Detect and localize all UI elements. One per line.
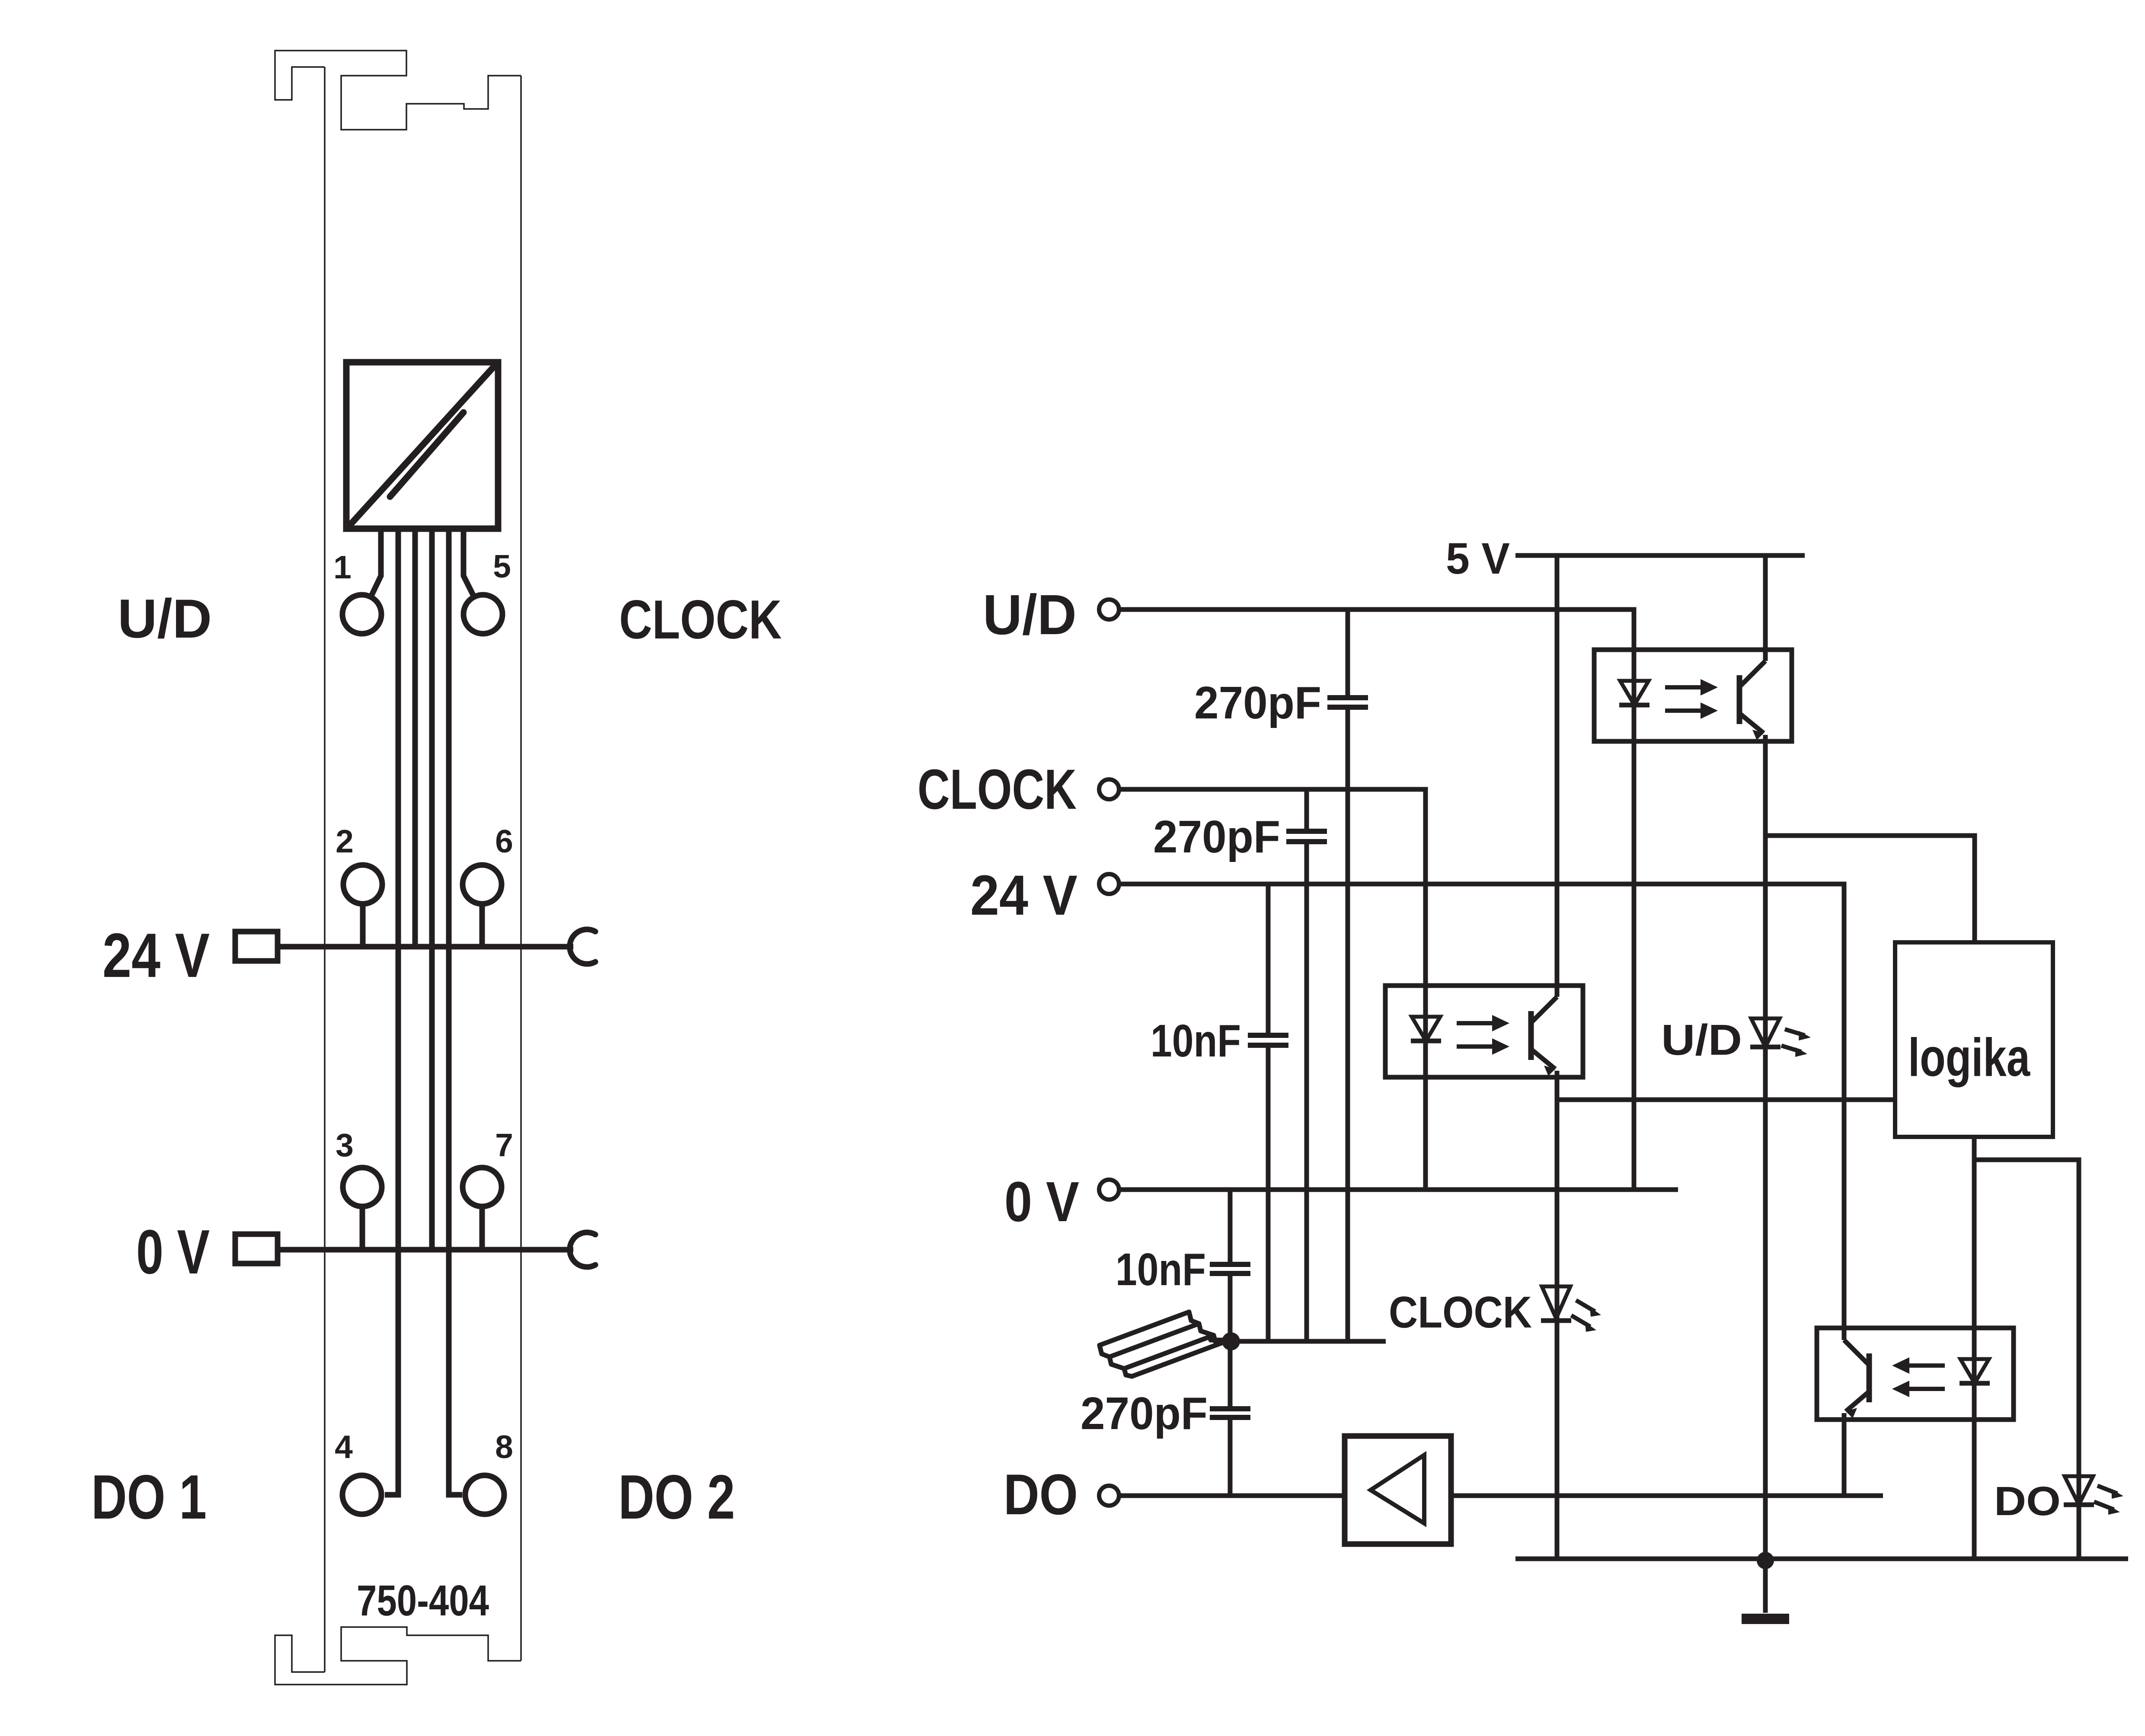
- capacitor C5 270pF vertical bottom: [1228, 1417, 1233, 1496]
- CLOCK terminal circle: [1099, 779, 1119, 799]
- svg-text:U/D: U/D: [118, 588, 212, 649]
- svg-text:DO 2: DO 2: [618, 1462, 735, 1532]
- 0V bus arc contact: [570, 1232, 595, 1267]
- svg-text:750-404: 750-404: [357, 1576, 489, 1625]
- pin 7 circle: [463, 1168, 502, 1206]
- 0V bus wire: [278, 1247, 573, 1253]
- CLOCK LED light arrows: [1571, 1300, 1601, 1332]
- svg-text:270pF: 270pF: [1153, 811, 1280, 862]
- opto U3 LED: [1960, 1359, 1989, 1383]
- wire w5 to pin 8: [449, 529, 462, 1495]
- svg-text:0 V: 0 V: [1004, 1170, 1079, 1233]
- svg-text:6: 6: [495, 823, 513, 859]
- pin 8 circle: [465, 1475, 504, 1514]
- svg-text:270pF: 270pF: [1194, 677, 1321, 728]
- capacitor C3 10nF vertical top: [1266, 884, 1271, 1035]
- pin 5 circle: [464, 595, 502, 634]
- wire emitter branch to logika top: [1765, 836, 1975, 942]
- driver box: [1345, 1436, 1451, 1544]
- 24V bus wire: [278, 944, 573, 950]
- capacitor C4 10nF vertical bottom: [1228, 1273, 1233, 1409]
- wire w6 to pin 5: [464, 529, 474, 597]
- opto U2 LED: [1412, 1017, 1440, 1041]
- U/D opto emitter vertical to ground dot: [1763, 741, 1768, 1560]
- CLOCK opto emitter vertical to ground rail: [1555, 1077, 1560, 1559]
- earth node junction dot: [1222, 1332, 1240, 1350]
- 0V wire: [1119, 1187, 1678, 1192]
- wire emitter to logika: [1557, 1098, 1895, 1102]
- capacitor C1 270pF plates: [1327, 698, 1368, 707]
- opto U3 DO box: [1817, 1328, 2014, 1420]
- CLOCK indicator LED: [1542, 1286, 1570, 1318]
- svg-text:270pF: 270pF: [1080, 1388, 1208, 1439]
- opto U1 LED: [1620, 681, 1649, 705]
- pin 4 circle: [342, 1475, 381, 1514]
- CLOCK input wire: [1119, 789, 1426, 1190]
- svg-text:3: 3: [336, 1127, 354, 1163]
- module left edge: [324, 67, 326, 1672]
- pin 3 circle: [343, 1168, 382, 1206]
- capacitor C5 270pF plates: [1210, 1409, 1250, 1417]
- svg-text:5 V: 5 V: [1446, 534, 1510, 583]
- 0V power jumper tab: [235, 1234, 278, 1264]
- opto U2 light arrows: [1457, 1015, 1509, 1055]
- svg-text:U/D: U/D: [983, 583, 1077, 646]
- svg-text:0 V: 0 V: [136, 1217, 210, 1287]
- opto U3 transistor: [1867, 1353, 1872, 1402]
- DO LED light arrows: [2094, 1486, 2123, 1515]
- opto U1 light arrows: [1665, 679, 1718, 719]
- wire w3 to 24V bus: [412, 529, 418, 947]
- 24V wire to DO opto collector: [1119, 884, 1844, 1328]
- DO terminal circle: [1099, 1486, 1119, 1506]
- capacitor C1 270pF vertical top: [1346, 610, 1350, 698]
- pin 7 stub: [480, 1206, 485, 1250]
- power block inner diagonal: [390, 412, 464, 497]
- capacitor C2 270pF plates: [1286, 831, 1327, 842]
- svg-text:7: 7: [495, 1127, 513, 1163]
- ground symbol bar: [1742, 1614, 1789, 1624]
- 5V branch vertical to U/D opto collector: [1763, 555, 1768, 650]
- opto U2 CLOCK box: [1385, 986, 1583, 1077]
- svg-text:U/D: U/D: [1661, 1016, 1742, 1064]
- opto U2 transistor: [1528, 1011, 1534, 1060]
- svg-text:CLOCK: CLOCK: [917, 757, 1077, 821]
- logika box: [1895, 942, 2053, 1137]
- svg-text:24 V: 24 V: [102, 920, 210, 990]
- capacitor C3 10nF vertical bottom: [1266, 1045, 1271, 1341]
- 24V power jumper tab: [235, 932, 278, 961]
- pin 2 stub: [360, 904, 366, 947]
- svg-text:CLOCK: CLOCK: [1389, 1287, 1532, 1337]
- opto U3 emitter vertical to DO wire: [1842, 1420, 1847, 1496]
- capacitor C3 10nF plates: [1248, 1035, 1288, 1045]
- 24V bus arc contact: [570, 929, 595, 964]
- wire w2 to pin 4: [385, 529, 398, 1495]
- opto U3 light arrows: [1892, 1357, 1945, 1397]
- power block symbol: [346, 362, 498, 529]
- svg-text:1: 1: [333, 549, 352, 585]
- U/D input wire: [1119, 610, 1634, 1190]
- svg-text:10nF: 10nF: [1116, 1244, 1206, 1295]
- U/D LED light arrows: [1781, 1029, 1811, 1057]
- capacitor C4 10nF plates: [1210, 1264, 1250, 1273]
- driver triangle: [1371, 1455, 1424, 1523]
- logika branch wire to DO LED and ground rail: [1974, 1160, 2079, 1559]
- svg-text:4: 4: [335, 1429, 353, 1465]
- pin 1 circle: [342, 595, 381, 634]
- module outline bottom profile: [275, 1627, 521, 1685]
- DIN rail symbol: [1100, 1312, 1231, 1376]
- svg-text:logika: logika: [1908, 1028, 2030, 1088]
- module right edge: [520, 76, 522, 1661]
- module outline top profile: [275, 51, 521, 130]
- DO wire right of driver: [1451, 1493, 1883, 1498]
- svg-text:5: 5: [493, 548, 511, 584]
- svg-text:DO: DO: [1004, 1463, 1078, 1527]
- earth node row wire: [1231, 1339, 1386, 1344]
- pin 2 circle: [343, 865, 382, 904]
- capacitor C1 270pF vertical bottom: [1346, 707, 1350, 1341]
- ground rail: [1515, 1557, 2128, 1561]
- ground junction dot: [1757, 1552, 1774, 1569]
- pin 6 circle: [463, 865, 502, 904]
- ground symbol stem: [1763, 1560, 1768, 1613]
- power block diagonal: [349, 365, 495, 526]
- wire w1 to pin 1: [371, 529, 381, 597]
- pin 3 stub: [360, 1206, 365, 1250]
- 0V terminal circle: [1099, 1180, 1119, 1200]
- 5V branch vertical to CLOCK opto collector: [1555, 555, 1560, 986]
- U/D terminal circle: [1099, 600, 1119, 619]
- capacitor C2 270pF vertical top: [1304, 789, 1309, 831]
- svg-text:8: 8: [495, 1429, 513, 1465]
- wire w4 to 0V bus: [429, 529, 435, 1250]
- U/D indicator LED: [1751, 1018, 1780, 1047]
- opto U3 LED line from logika to ground rail: [1972, 1137, 1977, 1559]
- capacitor C4 10nF vertical top: [1228, 1190, 1233, 1264]
- svg-text:24 V: 24 V: [970, 863, 1077, 927]
- DO wire left of driver: [1119, 1493, 1345, 1498]
- svg-text:CLOCK: CLOCK: [619, 589, 782, 650]
- svg-text:10nF: 10nF: [1151, 1015, 1241, 1066]
- 5V rail: [1515, 553, 1805, 558]
- svg-text:2: 2: [336, 823, 354, 859]
- svg-text:DO: DO: [1994, 1478, 2061, 1524]
- DO indicator LED: [2065, 1476, 2093, 1505]
- opto U1 U/D box: [1594, 650, 1792, 741]
- svg-text:DO 1: DO 1: [91, 1462, 207, 1532]
- capacitor C2 270pF vertical bottom: [1304, 842, 1309, 1341]
- opto U1 transistor: [1737, 675, 1742, 724]
- pin 6 stub: [480, 904, 485, 947]
- 24V terminal circle: [1099, 874, 1119, 894]
